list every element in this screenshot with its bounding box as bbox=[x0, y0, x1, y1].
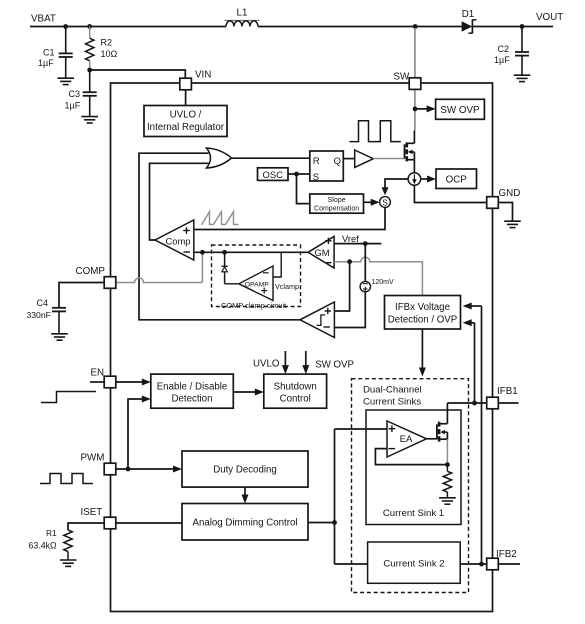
ground C1 bbox=[57, 78, 74, 84]
svg-text:GM: GM bbox=[314, 247, 329, 258]
label COMP clamp circuit bbox=[221, 301, 286, 310]
wire IFB1 bbox=[447, 402, 486, 404]
node dimming branch bbox=[332, 520, 337, 525]
block Enable / Disable Detection bbox=[151, 374, 234, 408]
svg-text:R1: R1 bbox=[46, 528, 57, 538]
svg-text:L1: L1 bbox=[237, 8, 248, 19]
wire IFB1 external bbox=[498, 402, 518, 404]
block Duty Decoding bbox=[182, 451, 308, 487]
wire sensor to OCP block bbox=[421, 176, 436, 183]
wire IFB2 external bbox=[498, 563, 520, 565]
wire VIN to UVLO block bbox=[185, 90, 187, 106]
svg-text:R2: R2 bbox=[101, 38, 113, 48]
op-amp OPAMP (Vclamp) bbox=[239, 266, 273, 301]
svg-text:D1: D1 bbox=[462, 9, 475, 20]
wire EA feedback bbox=[375, 449, 447, 465]
wire Q2 drain to IFB1 bbox=[446, 403, 448, 424]
comparator Comp bbox=[155, 220, 194, 260]
sawtooth waveform (gray) bbox=[202, 212, 239, 225]
pin EN bbox=[91, 368, 116, 388]
sense resistor R-CS1 bbox=[443, 465, 451, 498]
svg-text:Detection / OVP: Detection / OVP bbox=[388, 315, 457, 326]
block Slope Compensation bbox=[310, 194, 364, 213]
svg-text:Enable / Disable: Enable / Disable bbox=[157, 381, 228, 392]
svg-text:C1: C1 bbox=[43, 48, 55, 58]
node SW-D1 junction bbox=[413, 24, 418, 29]
svg-text:Internal Regulator: Internal Regulator bbox=[147, 122, 225, 133]
svg-text:63.4kΩ: 63.4kΩ bbox=[29, 541, 58, 551]
svg-text:Current Sinks: Current Sinks bbox=[363, 397, 421, 408]
svg-text:1µF: 1µF bbox=[494, 55, 510, 65]
wire IFBx to current sinks bbox=[419, 329, 426, 377]
svg-text:S: S bbox=[382, 198, 388, 207]
svg-text:S: S bbox=[313, 172, 319, 183]
node R2-C3-VIN junction bbox=[87, 68, 92, 73]
svg-text:Shutdown: Shutdown bbox=[274, 381, 317, 392]
current sensor OCP bbox=[408, 173, 421, 186]
block Current Sink 2 bbox=[368, 542, 461, 583]
ground R1 bbox=[60, 560, 77, 566]
svg-text:OCP: OCP bbox=[446, 175, 468, 186]
dashed box Dual-Channel Current Sinks bbox=[352, 379, 469, 593]
block OSC bbox=[258, 168, 289, 181]
svg-text:VIN: VIN bbox=[195, 70, 211, 81]
PWM square waveform bbox=[40, 474, 93, 484]
label SW OVP input bbox=[315, 359, 354, 370]
svg-text:Vclamp: Vclamp bbox=[275, 282, 299, 291]
block SW OVP bbox=[436, 99, 485, 119]
inductor L1 bbox=[225, 8, 260, 27]
svg-text:UVLO /: UVLO / bbox=[170, 110, 202, 121]
wire ISET to R1 bbox=[68, 523, 104, 530]
svg-text:OSC: OSC bbox=[263, 169, 284, 180]
wire SW node vertical (gray) bbox=[413, 28, 416, 143]
node Vref junction bbox=[363, 241, 368, 246]
svg-text:PWM: PWM bbox=[81, 453, 105, 464]
node IFB1 junction bbox=[472, 401, 477, 406]
pin SW bbox=[394, 72, 421, 90]
svg-text:COMP clamp circuit: COMP clamp circuit bbox=[221, 301, 286, 310]
node IFB2 junction bbox=[479, 562, 484, 567]
svg-text:1µF: 1µF bbox=[38, 58, 54, 68]
svg-text:120mV: 120mV bbox=[372, 279, 395, 286]
clamp circuit dashed box bbox=[212, 245, 301, 307]
pin IFB2 bbox=[487, 549, 517, 570]
block IFBx Voltage Detection / OVP bbox=[385, 296, 461, 330]
block OCP bbox=[436, 169, 477, 189]
svg-text:IFBx Voltage: IFBx Voltage bbox=[395, 302, 450, 313]
clamp diode D-clamp bbox=[221, 252, 227, 283]
wire COMP error net bbox=[194, 251, 308, 253]
gate drive square waveform bbox=[350, 121, 401, 142]
svg-text:Detection: Detection bbox=[172, 394, 213, 405]
wire Vref to 120mV source bbox=[364, 244, 366, 282]
pin COMP bbox=[76, 266, 116, 289]
node OSC branch bbox=[294, 172, 299, 177]
ground GND pin bbox=[504, 221, 521, 227]
block Current Sink 1 bbox=[366, 410, 461, 525]
sink NMOS Q2 bbox=[437, 422, 448, 442]
wire duty decoding to analog dimming bbox=[242, 487, 249, 503]
capacitor C1 bbox=[38, 27, 73, 78]
node VBAT-R2 junction bbox=[87, 24, 92, 29]
svg-text:SW OVP: SW OVP bbox=[440, 105, 480, 116]
pin GND bbox=[487, 188, 521, 209]
wire R2/C3 to VIN bbox=[90, 70, 186, 78]
wire Comp output to OR input bbox=[150, 163, 209, 240]
svg-text:10Ω: 10Ω bbox=[101, 49, 118, 59]
node VBAT-C1 junction bbox=[63, 24, 68, 29]
svg-text:IFB1: IFB1 bbox=[497, 386, 518, 397]
svg-text:Q: Q bbox=[334, 156, 341, 167]
wire OSC to S input bbox=[288, 173, 310, 175]
svg-text:UVLO: UVLO bbox=[253, 358, 280, 369]
capacitor C4 bbox=[27, 298, 67, 333]
wire OPAMP inverting input bbox=[273, 252, 281, 277]
svg-text:ISET: ISET bbox=[81, 507, 103, 518]
svg-text:SW OVP: SW OVP bbox=[315, 359, 354, 370]
gm-amp GM bbox=[308, 237, 334, 269]
wire SW OVP to shutdown control bbox=[302, 351, 309, 374]
wire UVLO to shutdown control bbox=[282, 351, 289, 374]
svg-text:EN: EN bbox=[91, 368, 105, 379]
capacitor C3 bbox=[65, 70, 97, 116]
wire enable detect to shutdown control bbox=[233, 389, 263, 396]
wire summer to Comp + input bbox=[194, 207, 385, 229]
svg-text:C3: C3 bbox=[69, 89, 81, 99]
resistor R2 bbox=[86, 27, 118, 71]
svg-text:Vref: Vref bbox=[342, 233, 359, 244]
IC boundary box bbox=[111, 83, 493, 612]
voltage source 120mV bbox=[360, 279, 394, 292]
label UVLO bbox=[253, 358, 280, 369]
wire Q to driver bbox=[343, 158, 354, 160]
node PWM branch bbox=[126, 467, 131, 472]
pin PWM bbox=[81, 453, 116, 475]
node sense resistor junction bbox=[445, 462, 450, 467]
or-gate U-OR bbox=[207, 148, 232, 168]
wire COMP pin to error net (gray, hop over feedback line) bbox=[116, 252, 203, 282]
capacitor C2 bbox=[494, 27, 529, 75]
wire IFB1 sense to IFBx block bbox=[463, 319, 475, 403]
wire OSC to slope comp bbox=[297, 174, 310, 204]
wire EN to enable detect bbox=[116, 379, 151, 386]
wire dimming to current sink 2 bbox=[335, 563, 368, 565]
wire PWM to enable detect bbox=[128, 396, 151, 470]
wire PWM to duty decoding bbox=[116, 466, 182, 473]
wire dimming to EA + input bbox=[335, 428, 388, 430]
node SW OVP tap bbox=[413, 107, 418, 112]
svg-text:Slope: Slope bbox=[328, 197, 346, 204]
wire sensor to GND pin bbox=[414, 185, 486, 202]
svg-text:Dual-Channel: Dual-Channel bbox=[363, 385, 422, 396]
power NMOS Q1 bbox=[405, 142, 415, 161]
driver buffer U-DRV bbox=[355, 150, 374, 167]
svg-text:Current Sink 2: Current Sink 2 bbox=[383, 559, 444, 570]
svg-text:R: R bbox=[313, 156, 320, 167]
node comp minus junction bbox=[200, 250, 205, 255]
node clamp diode junction bbox=[222, 250, 227, 255]
svg-text:Control: Control bbox=[280, 394, 311, 405]
wire COMP pin to C4 bbox=[59, 283, 105, 308]
error amp EA bbox=[387, 421, 427, 457]
wire driver to gate (gray) bbox=[373, 158, 404, 160]
ground C4 bbox=[51, 334, 68, 340]
wire EN stub bbox=[90, 381, 104, 383]
EN step waveform bbox=[41, 392, 96, 403]
wire Q1 source to current sensor bbox=[413, 160, 415, 173]
wire ISET to analog dimming bbox=[116, 522, 182, 524]
svg-text:C2: C2 bbox=[498, 44, 510, 54]
wire Q2 source to sense resistor bbox=[446, 439, 448, 464]
svg-text:COMP: COMP bbox=[76, 266, 106, 277]
summer S bbox=[380, 197, 391, 208]
wire 120mV to Schmitt - input bbox=[334, 292, 365, 328]
svg-text:EA: EA bbox=[400, 434, 413, 445]
wire OR output to RS latch R bbox=[232, 157, 310, 159]
svg-text:GND: GND bbox=[499, 188, 521, 199]
svg-text:C4: C4 bbox=[37, 298, 49, 308]
ground CS1 bbox=[439, 498, 456, 504]
label Vclamp bbox=[275, 282, 299, 291]
svg-text:Comp: Comp bbox=[165, 236, 190, 247]
wire GM feedback to Schmitt + input bbox=[334, 262, 349, 311]
wire dimming bus vertical bbox=[334, 429, 336, 564]
resistor R1 bbox=[29, 528, 73, 560]
svg-text:Current Sink 1: Current Sink 1 bbox=[383, 508, 444, 519]
node VOUT junction bbox=[520, 24, 525, 29]
wire VBAT top rail bbox=[30, 26, 553, 28]
svg-text:Duty Decoding: Duty Decoding bbox=[213, 465, 277, 476]
wire EA output to sink FET gate bbox=[427, 438, 437, 440]
wire Schmitt output to OR input bbox=[139, 153, 300, 320]
wire current sink 2 to IFB2 bbox=[460, 563, 487, 565]
wire GND pin to ground bbox=[498, 203, 512, 221]
diode D1 (Schottky) bbox=[462, 9, 477, 33]
block Shutdown Control bbox=[264, 374, 327, 408]
svg-text:1µF: 1µF bbox=[65, 100, 81, 110]
svg-text:Compensation: Compensation bbox=[314, 206, 359, 213]
rs-latch U-RS bbox=[310, 151, 344, 183]
wire Vref bbox=[334, 233, 381, 244]
schmitt comparator U-SCH bbox=[300, 302, 334, 338]
node GM feedback junction bbox=[347, 259, 352, 264]
pin ISET bbox=[81, 507, 116, 529]
pin VIN bbox=[180, 70, 212, 90]
block Analog Dimming Control bbox=[182, 504, 308, 541]
svg-text:SW: SW bbox=[394, 72, 411, 83]
svg-text:330nF: 330nF bbox=[27, 310, 51, 320]
svg-text:VBAT: VBAT bbox=[31, 14, 56, 25]
ground C3 bbox=[81, 117, 98, 123]
wire slope comp to summer bbox=[364, 199, 380, 206]
net VOUT label bbox=[536, 12, 563, 23]
wire sensor to summer bbox=[382, 179, 409, 195]
svg-text:OPAMP: OPAMP bbox=[245, 281, 270, 288]
svg-text:Analog Dimming Control: Analog Dimming Control bbox=[193, 517, 298, 528]
ground C2 bbox=[514, 75, 531, 81]
wire IFB2 sense to IFBx block bbox=[463, 303, 482, 565]
wire OPAMP output to diode bbox=[225, 283, 239, 285]
svg-text:VOUT: VOUT bbox=[536, 12, 563, 23]
block UVLO / Internal Regulator bbox=[144, 106, 227, 137]
pin IFB1 bbox=[487, 386, 518, 409]
wire GM feedback (gray, hop over 120mV branch) bbox=[334, 257, 422, 295]
wire to SW OVP block bbox=[415, 105, 436, 112]
svg-text:IFB2: IFB2 bbox=[496, 549, 517, 560]
wire analog dimming to current sinks bbox=[308, 522, 335, 524]
net VBAT label bbox=[31, 14, 56, 25]
